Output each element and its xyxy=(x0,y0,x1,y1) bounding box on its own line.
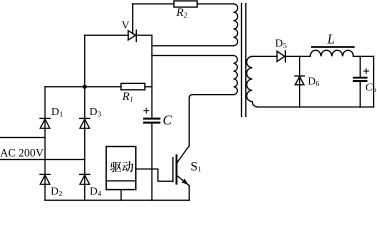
svg-text:AC 200V: AC 200V xyxy=(0,147,44,159)
svg-text:L: L xyxy=(326,31,335,46)
svg-text:V: V xyxy=(122,19,130,31)
svg-text:C: C xyxy=(163,112,173,127)
